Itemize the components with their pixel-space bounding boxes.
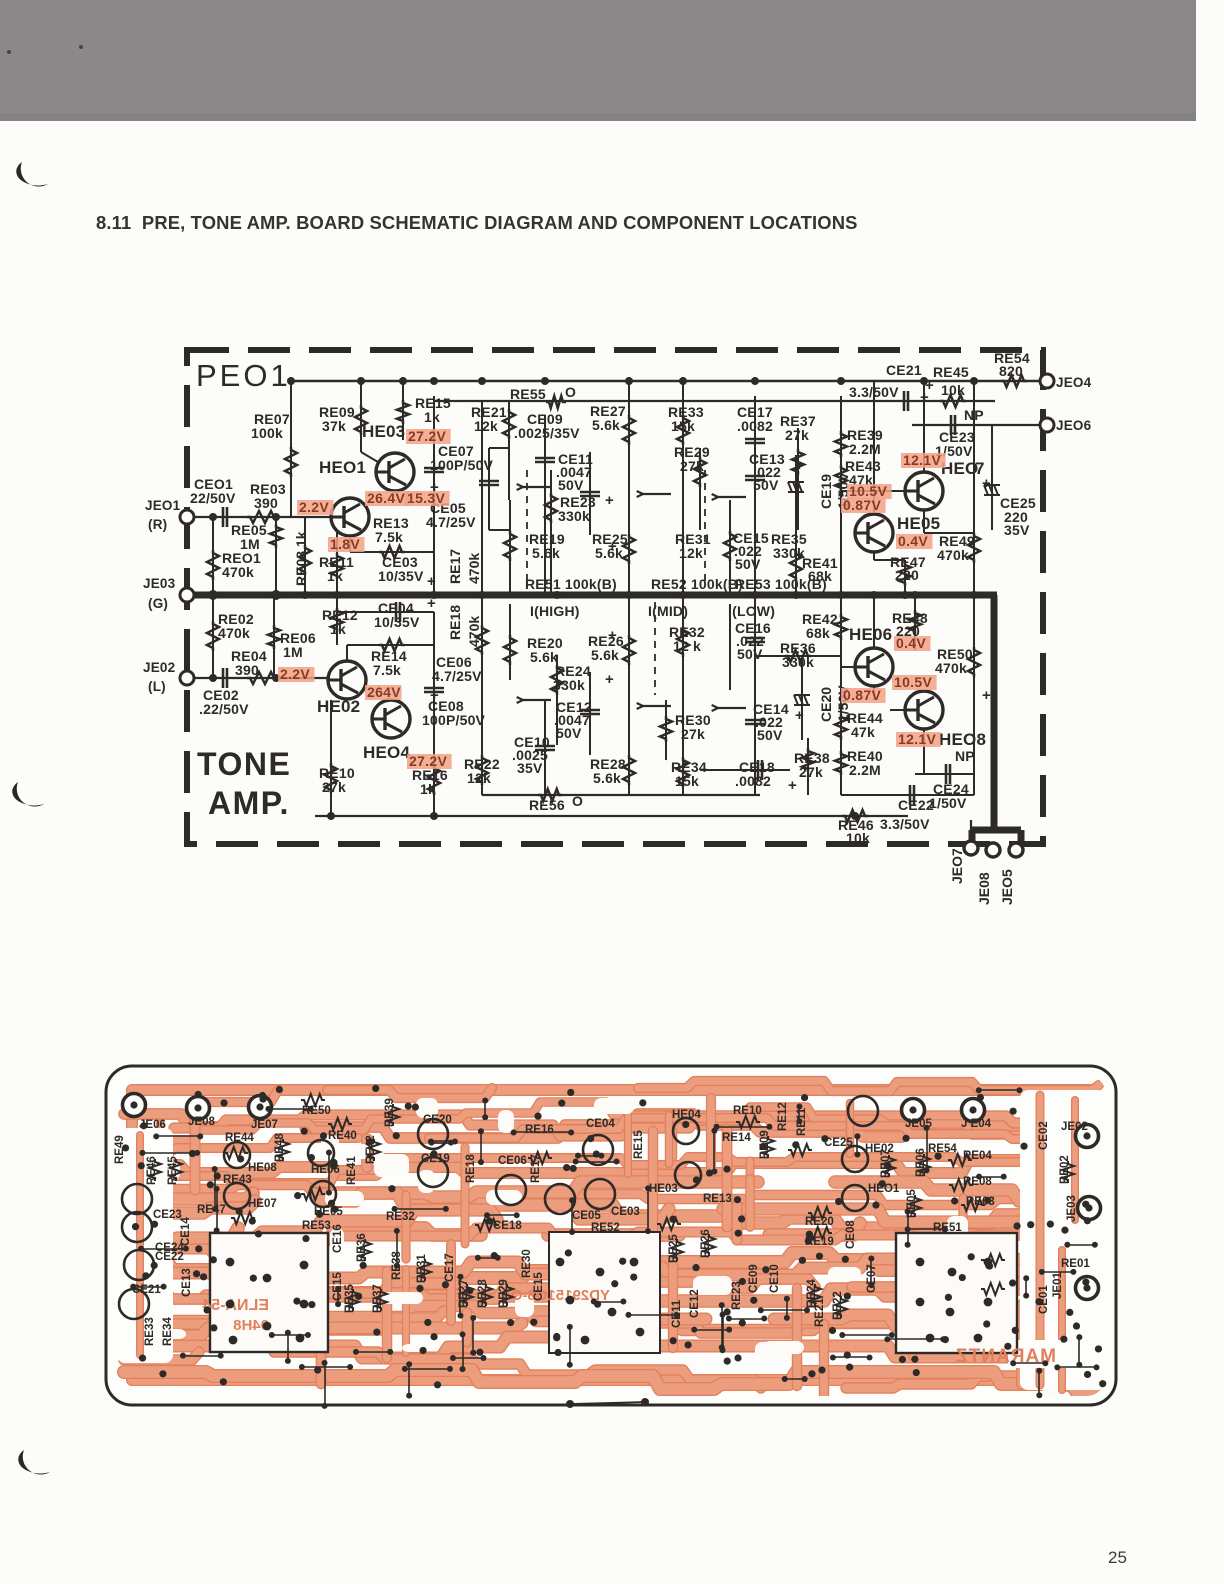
svg-text:I(LOW): I(LOW) xyxy=(728,603,775,619)
svg-text:470k: 470k xyxy=(218,625,250,641)
svg-text:RE52: RE52 xyxy=(591,1222,620,1234)
svg-text:330k: 330k xyxy=(773,545,805,561)
svg-text:2.2V: 2.2V xyxy=(280,666,310,682)
svg-text:PEO1: PEO1 xyxy=(196,358,291,393)
svg-text:37k: 37k xyxy=(322,418,346,434)
svg-text:CE10: CE10 xyxy=(769,1264,781,1293)
svg-text:ELNA-54: ELNA-54 xyxy=(202,1297,269,1314)
svg-text:(G): (G) xyxy=(148,596,168,611)
svg-text:MARANTZ: MARANTZ xyxy=(955,1346,1056,1367)
svg-text:264V: 264V xyxy=(367,684,401,700)
svg-text:470k: 470k xyxy=(466,616,482,647)
svg-text:+: + xyxy=(427,573,436,590)
svg-text:JEO6: JEO6 xyxy=(1056,418,1092,433)
svg-text:CE06: CE06 xyxy=(498,1155,527,1167)
svg-text:1k: 1k xyxy=(330,621,346,637)
svg-text:RE54: RE54 xyxy=(928,1143,957,1155)
svg-text:RE33: RE33 xyxy=(144,1317,156,1346)
svg-text:HEO1: HEO1 xyxy=(319,458,366,477)
svg-text:+: + xyxy=(982,687,991,704)
svg-text:CE04: CE04 xyxy=(586,1118,615,1130)
svg-text:27k: 27k xyxy=(799,764,823,780)
svg-text:JEO4: JEO4 xyxy=(1056,375,1092,390)
svg-text:RE18: RE18 xyxy=(465,1154,477,1183)
svg-text:(R): (R) xyxy=(148,517,167,532)
svg-text:+: + xyxy=(608,627,617,644)
svg-text:RE17: RE17 xyxy=(447,549,463,584)
svg-text:7.5k: 7.5k xyxy=(373,662,401,678)
svg-text:.0025/35V: .0025/35V xyxy=(514,425,580,441)
svg-text:JE08: JE08 xyxy=(976,872,992,905)
svg-text:0.4V: 0.4V xyxy=(896,635,926,651)
svg-text:12k: 12k xyxy=(467,770,491,786)
svg-text:7: 7 xyxy=(975,459,985,478)
svg-text:27k: 27k xyxy=(680,458,704,474)
svg-text:+: + xyxy=(605,671,614,688)
svg-text:RE10: RE10 xyxy=(733,1105,762,1117)
svg-text:100P/50V: 100P/50V xyxy=(422,712,486,728)
svg-text:12.1V: 12.1V xyxy=(898,731,936,747)
svg-text:+: + xyxy=(430,687,439,704)
svg-text:HE02: HE02 xyxy=(317,697,360,716)
svg-text:5.6k: 5.6k xyxy=(592,417,620,433)
svg-text:27k: 27k xyxy=(785,427,809,443)
svg-text:JEO7: JEO7 xyxy=(949,848,965,884)
svg-text:RE30: RE30 xyxy=(521,1249,533,1278)
svg-text:CE12: CE12 xyxy=(689,1289,701,1318)
svg-text:CE17: CE17 xyxy=(444,1253,456,1282)
svg-text:HE03: HE03 xyxy=(362,422,405,441)
svg-text:CE07: CE07 xyxy=(866,1264,878,1293)
svg-text:1k: 1k xyxy=(420,781,436,797)
svg-text:RE52 100k(B): RE52 100k(B) xyxy=(651,576,743,592)
svg-text:3.3/50V: 3.3/50V xyxy=(880,816,930,832)
svg-text:390: 390 xyxy=(235,662,259,678)
svg-text:2.2V: 2.2V xyxy=(299,499,329,515)
svg-text:I(HIGH): I(HIGH) xyxy=(530,603,580,619)
svg-text:CE20: CE20 xyxy=(818,687,834,722)
svg-text:HE06: HE06 xyxy=(849,625,892,644)
svg-text:50V: 50V xyxy=(558,477,584,493)
svg-text:10/35V: 10/35V xyxy=(378,568,424,584)
svg-text:8.11 PRE, TONE AMP. BOARD SCH: 8.11 PRE, TONE AMP. BOARD SCHEMATIC DIAG… xyxy=(96,212,858,233)
svg-text:HE08: HE08 xyxy=(248,1162,277,1174)
svg-text:12k: 12k xyxy=(474,418,498,434)
svg-text:CE19: CE19 xyxy=(818,474,834,509)
svg-text:CE16: CE16 xyxy=(332,1224,344,1253)
svg-text:820: 820 xyxy=(999,363,1023,379)
svg-text:CE08: CE08 xyxy=(845,1220,857,1249)
svg-text:27.2V: 27.2V xyxy=(409,753,447,769)
svg-text:12k: 12k xyxy=(679,545,703,561)
svg-text:470k: 470k xyxy=(937,547,969,563)
svg-text:+: + xyxy=(795,457,804,474)
svg-text:RE53 100k(B): RE53 100k(B) xyxy=(735,576,827,592)
svg-text:25: 25 xyxy=(1108,1548,1127,1567)
svg-text:220: 220 xyxy=(895,567,919,583)
svg-text:0.87V: 0.87V xyxy=(843,687,881,703)
svg-text:1M: 1M xyxy=(283,644,303,660)
svg-text:50V: 50V xyxy=(757,727,783,743)
svg-text:NP: NP xyxy=(955,748,975,764)
svg-text:CE22: CE22 xyxy=(898,797,934,813)
svg-text:RE47: RE47 xyxy=(197,1204,226,1216)
svg-text:HEO8: HEO8 xyxy=(939,730,986,749)
svg-text:4.7/25V: 4.7/25V xyxy=(432,668,482,684)
svg-text:NP: NP xyxy=(964,407,984,423)
svg-text:2.2M: 2.2M xyxy=(849,762,881,778)
svg-text:50V: 50V xyxy=(735,556,761,572)
svg-text:12 k: 12 k xyxy=(673,638,701,654)
svg-text:5.6k: 5.6k xyxy=(591,647,619,663)
svg-text:0.4V: 0.4V xyxy=(898,533,928,549)
svg-text:JE01: JE01 xyxy=(1052,1272,1064,1299)
svg-text:10/35V: 10/35V xyxy=(374,614,420,630)
svg-text:22/50V: 22/50V xyxy=(190,490,236,506)
svg-text:50V: 50V xyxy=(753,477,779,493)
svg-text:7.5k: 7.5k xyxy=(375,529,403,545)
svg-text:RE41: RE41 xyxy=(346,1156,358,1185)
svg-text:CE02: CE02 xyxy=(1038,1121,1050,1150)
svg-text:I(MID): I(MID) xyxy=(648,603,688,619)
svg-text:470k: 470k xyxy=(222,564,254,580)
svg-text:RE12: RE12 xyxy=(777,1102,789,1131)
svg-text:CE09: CE09 xyxy=(748,1264,760,1293)
svg-text:RE56: RE56 xyxy=(529,797,565,813)
svg-text:+: + xyxy=(427,595,436,612)
svg-text:+: + xyxy=(920,389,929,406)
svg-text:4.7/25V: 4.7/25V xyxy=(426,514,476,530)
svg-text:RE13: RE13 xyxy=(703,1193,732,1205)
svg-text:68k: 68k xyxy=(806,625,830,641)
svg-text:RE51 100k(B): RE51 100k(B) xyxy=(525,576,617,592)
svg-text:RE55: RE55 xyxy=(510,386,546,402)
svg-text:CE14: CE14 xyxy=(180,1217,192,1246)
svg-text:CE15: CE15 xyxy=(533,1272,545,1301)
svg-text:47k: 47k xyxy=(851,724,875,740)
svg-text:1k: 1k xyxy=(424,409,440,425)
svg-text:CE22: CE22 xyxy=(155,1251,184,1263)
svg-text:JE02: JE02 xyxy=(143,660,175,675)
svg-text:RE01: RE01 xyxy=(1061,1258,1090,1270)
svg-text:15k: 15k xyxy=(675,773,699,789)
svg-text:+: + xyxy=(795,707,804,724)
svg-text:JE03: JE03 xyxy=(1066,1195,1078,1222)
svg-text:HEO4: HEO4 xyxy=(363,743,410,762)
svg-text:3.3/50V: 3.3/50V xyxy=(849,384,899,400)
svg-text:.22/50V: .22/50V xyxy=(199,701,249,717)
svg-text:RE51: RE51 xyxy=(933,1222,962,1234)
svg-text:CE03: CE03 xyxy=(611,1206,640,1218)
svg-text:470k: 470k xyxy=(935,660,967,676)
svg-text:0.87V: 0.87V xyxy=(843,497,881,513)
svg-text:1/50V: 1/50V xyxy=(929,795,967,811)
svg-text:330k: 330k xyxy=(558,508,590,524)
svg-text:5.6k: 5.6k xyxy=(530,649,558,665)
svg-text:1k: 1k xyxy=(327,568,343,584)
svg-text:RE14: RE14 xyxy=(722,1132,751,1144)
svg-text:RE20: RE20 xyxy=(805,1216,834,1228)
svg-text:CE21: CE21 xyxy=(886,362,922,378)
svg-text:JEO5: JEO5 xyxy=(999,869,1015,905)
svg-text:RE16: RE16 xyxy=(525,1124,554,1136)
svg-text:.0082: .0082 xyxy=(735,773,771,789)
svg-text:(L): (L) xyxy=(148,679,166,694)
svg-text:RE45: RE45 xyxy=(933,364,969,380)
svg-text:27k: 27k xyxy=(322,779,346,795)
svg-text:HE03: HE03 xyxy=(649,1183,678,1195)
svg-text:27k: 27k xyxy=(681,726,705,742)
svg-text:JE02: JE02 xyxy=(1061,1121,1088,1133)
svg-text:TONE: TONE xyxy=(197,746,291,782)
svg-text:27.2V: 27.2V xyxy=(408,428,446,444)
svg-text:O: O xyxy=(572,793,583,809)
svg-text:RE18: RE18 xyxy=(447,605,463,640)
svg-text:10k: 10k xyxy=(846,830,870,846)
svg-text:JE08: JE08 xyxy=(188,1116,215,1128)
svg-text:.0082: .0082 xyxy=(737,418,773,434)
svg-text:HE05: HE05 xyxy=(897,514,940,533)
svg-text:RE23: RE23 xyxy=(731,1281,743,1310)
svg-text:10k: 10k xyxy=(941,382,965,398)
svg-text:12.1V: 12.1V xyxy=(903,452,941,468)
svg-text:50V: 50V xyxy=(556,725,582,741)
svg-text:CE05: CE05 xyxy=(572,1210,601,1222)
svg-text:RE08 1k: RE08 1k xyxy=(293,531,309,586)
svg-text:RE53: RE53 xyxy=(302,1220,331,1232)
svg-text:CE23: CE23 xyxy=(153,1209,182,1221)
svg-text:HE07: HE07 xyxy=(248,1198,277,1210)
svg-text:5.6k: 5.6k xyxy=(593,770,621,786)
svg-text:+: + xyxy=(605,492,614,509)
svg-text:CE13: CE13 xyxy=(181,1268,193,1297)
svg-text:+: + xyxy=(788,777,797,794)
svg-text:HEO: HEO xyxy=(941,459,978,478)
svg-text:330k: 330k xyxy=(553,677,585,693)
svg-text:100k: 100k xyxy=(251,425,283,441)
svg-text:100P/50V: 100P/50V xyxy=(430,457,494,473)
svg-text:+: + xyxy=(608,538,617,555)
svg-text:5.6k: 5.6k xyxy=(532,545,560,561)
svg-text:35V: 35V xyxy=(1004,522,1030,538)
svg-text:JE07: JE07 xyxy=(251,1119,278,1131)
svg-text:RE15: RE15 xyxy=(633,1130,645,1159)
svg-text:26.4V: 26.4V xyxy=(367,490,405,506)
svg-text:O: O xyxy=(565,384,576,400)
svg-text:15.3V: 15.3V xyxy=(407,490,445,506)
svg-text:470k: 470k xyxy=(466,553,482,584)
svg-text:10.5V: 10.5V xyxy=(894,674,932,690)
svg-text:35V: 35V xyxy=(517,760,543,776)
svg-text:15k: 15k xyxy=(671,418,695,434)
svg-text:AMP.: AMP. xyxy=(208,785,290,821)
svg-text:1.8V: 1.8V xyxy=(330,536,360,552)
svg-text:RE34: RE34 xyxy=(162,1317,174,1346)
svg-text:50V: 50V xyxy=(737,646,763,662)
svg-text:RE32: RE32 xyxy=(386,1211,415,1223)
svg-text:J E04: J E04 xyxy=(961,1118,992,1130)
svg-text:330k: 330k xyxy=(782,654,814,670)
svg-text:RE21: RE21 xyxy=(814,1298,826,1327)
svg-text:2.2M: 2.2M xyxy=(849,441,881,457)
svg-text:JEO1: JEO1 xyxy=(145,498,181,513)
svg-text:390: 390 xyxy=(254,495,278,511)
svg-text:JE03: JE03 xyxy=(143,576,176,591)
